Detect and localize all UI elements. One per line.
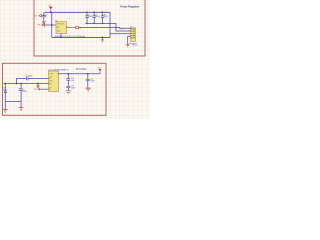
power flag VCC (5V) xyxy=(48,5,53,9)
capacitor C6 xyxy=(3,84,8,102)
node junction bus mid xyxy=(102,37,103,38)
capacitor C4 xyxy=(101,12,109,25)
capacitor C7 xyxy=(19,84,27,102)
wire C from U2 output xyxy=(59,73,100,75)
capacitor C1 xyxy=(42,12,47,21)
wire top rail 5V xyxy=(45,11,110,13)
svg-text:2.54mm: 2.54mm xyxy=(132,45,139,47)
node junction chain1 xyxy=(68,73,69,74)
ground mid xyxy=(36,86,40,88)
capacitor C13 chain1 lower xyxy=(66,80,75,90)
ground right xyxy=(19,108,23,111)
svg-text:NC: NC xyxy=(50,84,52,86)
svg-text:Decoupling: Decoupling xyxy=(76,68,87,70)
svg-text:VOUT: VOUT xyxy=(50,74,54,76)
svg-text:C12: C12 xyxy=(71,78,74,80)
svg-text:VIN VOUT: VIN VOUT xyxy=(57,24,64,26)
capacitor C12 chain1 upper xyxy=(66,74,74,82)
wire vertical x52 xyxy=(51,12,53,37)
capacitor C5 xyxy=(25,75,32,80)
svg-text:100nF: 100nF xyxy=(71,87,75,89)
op-amp U2 xyxy=(47,70,68,92)
wire rail drop to pin3 xyxy=(110,12,131,37)
node junction bus cap1 xyxy=(5,83,6,84)
ground under C1 xyxy=(42,22,46,24)
capacitor C14 chain2 xyxy=(86,74,95,88)
node junction bus gnd drop xyxy=(37,83,38,84)
top sheet frame (partial, cut at top) xyxy=(34,0,145,56)
capacitor C2 xyxy=(85,12,93,25)
svg-text:C4: C4 xyxy=(104,14,106,16)
svg-text:C10: C10 xyxy=(3,87,6,89)
wire bus B xyxy=(4,83,49,85)
canvas background xyxy=(0,0,150,119)
svg-text:C3: C3 xyxy=(96,14,98,16)
op-amp U1 regulator xyxy=(55,20,68,33)
wire ground tie xyxy=(5,102,21,110)
svg-text:100nF: 100nF xyxy=(3,89,8,91)
svg-text:100nF: 100nF xyxy=(104,16,108,18)
wire U1 bottom pin xyxy=(60,34,62,38)
wire U1 output xyxy=(67,26,76,28)
connector J1 xyxy=(130,27,136,42)
node junction on rail xyxy=(50,12,51,13)
ground left xyxy=(3,110,7,113)
svg-text:Power Regulator: Power Regulator xyxy=(120,6,139,9)
svg-text:C11: C11 xyxy=(22,89,25,91)
ground under J1 xyxy=(126,44,130,47)
wire stub to GND mid xyxy=(37,84,39,86)
svg-text:10uF: 10uF xyxy=(71,80,75,82)
wire arrow3 to U2 xyxy=(40,88,49,90)
wire caps bottom rail xyxy=(86,24,131,32)
node junction bus cap2 xyxy=(20,83,21,84)
ground chain2 xyxy=(85,88,91,91)
net port 5V (arrow 1) xyxy=(35,14,43,17)
bottom sheet frame xyxy=(3,63,107,115)
ground chain1 xyxy=(66,91,72,94)
svg-text:EN: EN xyxy=(50,88,52,90)
wire arrow2 to U1 xyxy=(45,24,57,26)
svg-text:100nF: 100nF xyxy=(90,80,94,82)
wire VCC stem xyxy=(50,9,52,12)
ground stub on bus xyxy=(102,37,104,39)
net port EN (arrow 3) xyxy=(34,88,40,91)
wire A into U2 xyxy=(17,79,49,84)
node junction riser xyxy=(16,83,17,84)
svg-text:100nF: 100nF xyxy=(22,91,27,93)
power flag 3V3 end xyxy=(98,68,102,74)
wire bead to J1 pin1 xyxy=(79,26,131,29)
wire ground bus top sheet xyxy=(52,36,110,38)
wire J1 pin4 to ground xyxy=(128,36,131,44)
svg-text:C14: C14 xyxy=(90,79,93,81)
node junction xyxy=(51,24,52,25)
node junction chain2 xyxy=(87,73,88,74)
node junction bus U1 xyxy=(60,37,61,38)
svg-text:VIN: VIN xyxy=(50,77,52,79)
net port EN (arrow 2) xyxy=(38,24,45,27)
svg-text:C13: C13 xyxy=(71,86,74,88)
svg-text:EN: EN xyxy=(57,27,59,29)
svg-text:10u: 10u xyxy=(45,15,48,17)
svg-text:GND: GND xyxy=(50,81,53,83)
capacitor C3 xyxy=(92,12,100,25)
ferrite bead FB1 xyxy=(76,26,79,29)
svg-text:100nF: 100nF xyxy=(96,16,100,18)
svg-text:100nF: 100nF xyxy=(88,16,92,18)
svg-text:C9 100nF: C9 100nF xyxy=(25,75,32,77)
svg-text:C2: C2 xyxy=(88,14,90,16)
